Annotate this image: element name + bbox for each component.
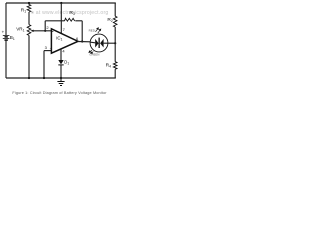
diode D1 bbox=[58, 60, 63, 64]
wire wiper to pin2 bbox=[33, 30, 51, 32]
wire LED to right rail bbox=[107, 42, 115, 44]
wire right rail top bbox=[114, 3, 116, 16]
node dot right rail bbox=[114, 42, 116, 44]
wire feedback vertical right bbox=[81, 21, 83, 42]
LED shared cathode bar bbox=[99, 38, 100, 48]
wire: bottom rail bbox=[6, 77, 116, 79]
op-amp minus mark bbox=[52, 31, 54, 33]
LED bicolor circle bbox=[90, 34, 108, 52]
node dot R1 top bbox=[28, 2, 30, 4]
wire pin 3 down to ground rail bbox=[43, 51, 45, 78]
resistor R3 bbox=[65, 18, 75, 21]
wire output to LED bbox=[78, 41, 91, 43]
svg-text:IC1: IC1 bbox=[56, 36, 62, 42]
op-amp IC1 bbox=[51, 29, 78, 53]
node dot D1 bottom bbox=[60, 77, 62, 79]
node dot pin7 top bbox=[60, 2, 62, 4]
svg-text:GREEN: GREEN bbox=[89, 53, 99, 57]
node dot VR1 bottom bbox=[28, 77, 30, 79]
wire pin 3 horizontal bbox=[44, 50, 51, 52]
resistor R4 bbox=[113, 62, 117, 69]
svg-text:Figure 1: Circuit Diagram of B: Figure 1: Circuit Diagram of Battery Vol… bbox=[12, 91, 107, 95]
wire D1 to ground rail bbox=[60, 65, 62, 78]
wire: top rail bbox=[6, 2, 116, 4]
LED green emission arrows bbox=[89, 50, 93, 53]
wire feedback horizontal left bbox=[45, 20, 64, 22]
potentiometer VR1 bbox=[27, 25, 31, 36]
LED red emission arrows bbox=[96, 28, 101, 33]
svg-text:✳: ✳ bbox=[31, 10, 35, 15]
ground bbox=[57, 78, 64, 86]
wire right rail bottom bbox=[114, 69, 116, 78]
battery B1 bbox=[3, 35, 10, 40]
wire feedback vertical left bbox=[44, 21, 46, 31]
node dot feedback tap bbox=[44, 30, 46, 32]
svg-text:RED: RED bbox=[89, 28, 96, 32]
wire right rail mid bbox=[114, 27, 116, 62]
wire feedback horizontal right bbox=[75, 20, 82, 22]
VR1 wiper arrowhead bbox=[30, 30, 33, 32]
wire R1 to VR1 bbox=[28, 12, 30, 25]
wire pin 4 down bbox=[60, 49, 62, 60]
svg-text:+: + bbox=[2, 29, 5, 34]
resistor R1 bbox=[27, 3, 31, 12]
node dot output bbox=[81, 40, 83, 42]
wire: left rail upper bbox=[5, 3, 7, 35]
wire VR1 bottom to ground rail bbox=[28, 35, 30, 78]
resistor R2 bbox=[113, 16, 117, 27]
wire pin 7 supply bbox=[60, 3, 62, 34]
wire: left rail lower bbox=[5, 41, 7, 78]
LED left diode bbox=[90, 41, 95, 44]
LED right diode bbox=[100, 39, 104, 48]
node dot pin3 bottom bbox=[43, 77, 45, 79]
